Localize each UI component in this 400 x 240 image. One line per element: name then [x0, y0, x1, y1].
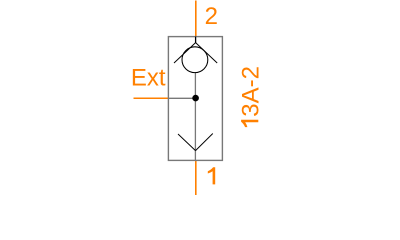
svg-text:3A-2: 3A-2 [237, 66, 264, 117]
svg-text:2: 2 [205, 3, 218, 30]
svg-text:Ext: Ext [131, 65, 166, 92]
